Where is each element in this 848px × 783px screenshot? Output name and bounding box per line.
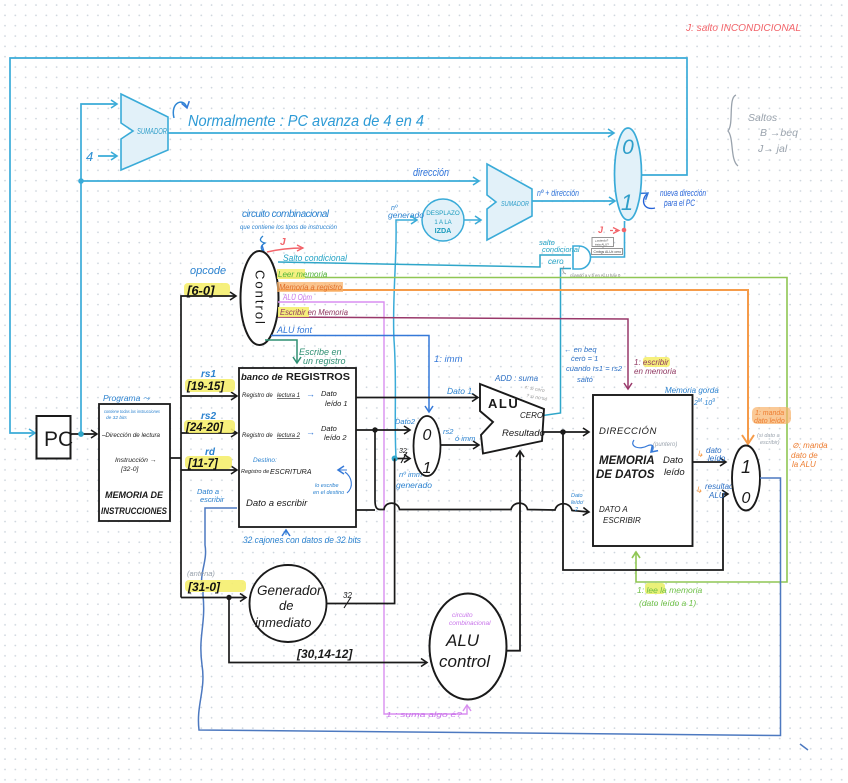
svg-text:→: → [306,389,315,399]
svg-text:rs1: rs1 [201,369,216,380]
wire branch-select: AND output right then up to mux [591,221,625,257]
svg-text:Resultado: Resultado [502,428,545,439]
memoria de datos box [593,395,693,546]
annotation memoria gorda [665,386,719,407]
svg-text:4: 4 [86,149,93,164]
label [6-0] with highlight [184,283,230,298]
svg-text:1: 1 [423,460,432,477]
svg-text:SUMADOR: SUMADOR [501,199,529,208]
wire control: memoria a registro (orange) [277,282,754,444]
svg-text:ADD : suma: ADD : suma [494,374,539,383]
svg-text:[31-0]: [31-0] [187,580,221,594]
banco de registros box [239,368,356,527]
svg-text:Dato a escribir: Dato a escribir [246,498,308,509]
svg-text:para el PC: para el PC [663,198,695,208]
wire write-back loop (blue) mux out, down, left, up into registers [198,478,780,736]
svg-text:Memoria gorda: Memoria gorda [665,386,719,395]
svg-text:leído: leído [664,467,685,478]
svg-text:1: lee la memoria: 1: lee la memoria [637,585,702,595]
svg-text:→: → [306,427,315,437]
svg-text:Dato: Dato [321,389,337,398]
wire PC value up to adder SUMADOR1 and junction [78,104,117,437]
shifter Desplazo 1 a la izda [422,199,464,241]
note box 2 (tiny) [592,249,623,255]
svg-text:0: 0 [423,427,432,444]
wire Dato leido 1 to ALU [356,386,478,398]
wire control: ALU Opm (violet) to ALU control [278,293,467,714]
svg-text:Cmbgs ALU≠ cero: Cmbgs ALU≠ cero [594,250,622,254]
svg-text:la ALU: la ALU [792,460,816,469]
wire control: leer memoria (green) [277,269,787,582]
svg-text:circuito: circuito [452,612,473,619]
wire instruction bus vertical [170,296,236,598]
svg-text:⊘: manda: ⊘: manda [792,441,828,450]
svg-text:[11-7]: [11-7] [187,458,219,470]
wire PC to instruction memory [70,431,97,437]
annotation nueva direccion para el PC [644,188,706,208]
svg-text:en memoria: en memoria [634,367,677,376]
svg-text:dirección: dirección [413,167,449,179]
svg-text:ó imm: ó imm [455,434,475,443]
svg-text:MEMORIA DE: MEMORIA DE [105,490,164,501]
svg-text:Instrucción →: Instrucción → [115,457,157,464]
svg-text:J→ jal: J→ jal [757,143,788,155]
wire adder2 output to mux 1 input [532,200,615,202]
annotation circuito combinacional (above control) [240,209,338,252]
svg-text:ALU font: ALU font [276,325,313,335]
svg-text:(puntero): (puntero) [653,442,677,448]
svg-text:(antena): (antena) [187,569,215,578]
svg-text:Destino:: Destino: [253,457,277,464]
label Dato a escribir (blue, left) [197,487,225,504]
svg-text:Memoria a registro: Memoria a registro [279,283,343,292]
svg-text:de 32 bits: de 32 bits [106,415,127,421]
svg-text:[30,14-12]: [30,14-12] [296,647,353,661]
annotation red J with arrow and dot on select wire [598,225,626,235]
annotation bracket saltos [728,95,798,166]
svg-text:leído: leído [708,454,726,463]
annotation 0 manda dato de la ALU (orange) [791,441,828,469]
annotation red J arrow near control [267,237,303,252]
svg-text:ALU Opm: ALU Opm [282,293,312,302]
ALU [480,384,545,454]
svg-text:32: 32 [343,591,352,600]
svg-text:1 : suma algo é?: 1 : suma algo é? [386,712,462,719]
svg-text:ESCRIBIR: ESCRIBIR [603,516,641,525]
svg-text:Dato: Dato [663,455,683,466]
svg-text:control: control [439,652,491,671]
wire direccion (PC to branch adder) [78,178,479,184]
svg-text:dato de: dato de [791,451,818,460]
memoria de instrucciones box [99,393,170,521]
svg-text:Escribir en Memoria: Escribir en Memoria [280,308,349,317]
svg-text:INSTRUCCIONES: INSTRUCCIONES [101,506,168,517]
svg-text:ALU: ALU [445,631,480,650]
wire salto condicional from control into AND top input [278,255,571,267]
svg-text:leído 1: leído 1 [325,399,348,408]
gray tiny note beside ALU [523,385,550,403]
svg-text:escribir: escribir [200,495,225,504]
svg-text:[24-20]: [24-20] [185,422,224,434]
svg-text:Salto condicional: Salto condicional [283,253,348,263]
svg-text:Registro de: Registro de [242,393,273,399]
svg-text:condicional: condicional [542,245,580,254]
annotation 1 lee la memoria (green) [637,583,702,608]
svg-text:IZDA: IZDA [435,226,452,235]
annotation 1 manda dato leido (orange) [752,407,791,446]
svg-text:nº + dirección: nº + dirección [537,188,579,198]
label resultado ALU at mux 0 [695,482,738,500]
label salto condicional (at gate) [539,238,580,254]
wire instruction bus into generador [181,597,246,599]
wire immediate into mux 1 input [392,448,410,463]
svg-text:leído 2: leído 2 [324,433,347,442]
svg-text:2M·109: 2M·109 [693,398,715,407]
svg-text:Registro de: Registro de [241,469,269,475]
note box 1 (tiny) [592,238,614,249]
tiny gray note under gate [563,266,621,278]
svg-text:Dato 1.: Dato 1. [447,386,474,396]
svg-text:1: 1 [741,457,751,477]
svg-text:saltó: saltó [577,375,593,384]
svg-text:inmediato: inmediato [255,615,311,630]
svg-text:DESPLAZO: DESPLAZO [426,210,460,217]
svg-text:0: 0 [742,490,751,507]
svg-text:ALU: ALU [488,396,519,411]
AND gate (branch and zero) [573,246,591,269]
svg-text:1: imm: 1: imm [434,354,463,365]
svg-text:contiene todas las instruccion: contiene todas las instrucciones [104,409,160,415]
adder SUMADOR2 (branch target) [487,164,532,240]
svg-text:J: J [280,237,286,248]
annotation 32 cajones [243,530,361,546]
svg-text:(dato leído a 1): (dato leído a 1) [639,598,696,608]
svg-text:Normalmente : PC avanza de 4 e: Normalmente : PC avanza de 4 en 4 [188,113,424,130]
svg-text:lectura 1: lectura 1 [277,393,300,399]
svg-text:Dato: Dato [321,424,337,433]
svg-text:Saltos: Saltos [748,112,778,124]
label n imm generado [396,470,432,490]
svg-text:leído: leído [571,500,583,506]
control unit ellipse [241,251,279,345]
wire PC+4 to mux 0 input [168,132,614,134]
mux write-back (1/0) [732,446,760,511]
svg-text:↳: ↳ [696,449,704,459]
wire control: escribir en memoria (dark red) [278,307,628,389]
svg-text:Dato: Dato [571,493,583,499]
wire Dato leido 2 to mux [356,417,416,433]
svg-text:dato leído: dato leído [754,418,785,425]
svg-text:que contiene los tipos de inst: que contiene los tipos de instrucción [240,225,338,231]
svg-text:REGISTROS: REGISTROS [286,371,350,383]
svg-text:Generador: Generador [257,583,322,598]
wire rd field into registers [181,447,237,470]
ALU control ellipse [430,594,507,700]
wire [30,14-12] to ALU control [226,595,427,663]
wire Resultado branch down and around to mux 0 [563,432,728,570]
svg-text:B →beq: B →beq [760,127,798,139]
svg-text:DE DATOS: DE DATOS [596,469,655,481]
svg-text:0: 0 [622,136,634,159]
svg-text:Programa ⤳: Programa ⤳ [103,393,151,403]
svg-text:DATO A: DATO A [599,505,628,514]
svg-text:opcode: opcode [190,265,226,277]
svg-text:PC: PC [44,428,73,451]
constant 4 input to adder [86,149,117,164]
svg-text:1: escribir: 1: escribir [634,358,669,367]
wire ALU control to ALU [506,451,520,651]
wire rs1 field into registers [181,369,237,396]
wire dato leido to mux 1 [693,446,726,463]
svg-text:banco de: banco de [241,372,283,383]
svg-text:Dato2: Dato2 [395,417,416,426]
svg-text:ESCRITURA: ESCRITURA [270,467,312,476]
svg-text:↳: ↳ [695,485,703,495]
svg-text:generado: generado [388,210,424,220]
svg-text:nueva dirección: nueva dirección [660,188,706,198]
wire mux output to ALU [441,427,479,445]
wire immediate output (32) of generador [327,459,395,609]
wire rs2 field into registers [181,411,237,434]
generador de inmediato circle [250,565,327,642]
svg-text:un registro: un registro [303,356,346,366]
svg-text:DIRECCIÓN: DIRECCIÓN [599,426,657,437]
mux PC source (0/1) top right [615,128,642,220]
register PC [37,416,74,459]
svg-text:rs2: rs2 [443,427,454,436]
svg-text:cuando rs1 = rs2: cuando rs1 = rs2 [566,364,623,373]
svg-text:lectura 2: lectura 2 [277,433,301,439]
mux ALUSrc (0/1) [414,416,441,477]
svg-text:(si dato a: (si dato a [757,433,780,439]
svg-text:SUMADOR: SUMADOR [137,127,167,136]
wire control: escribe en un registro (dark green) [265,340,346,366]
annotation 1 escribir en memoria [634,357,677,376]
wire Resultado to data memory [542,429,589,435]
svg-text:[19-15]: [19-15] [186,381,225,393]
svg-text:cero: cero [548,257,564,266]
svg-text:32 cajones con datos de 32 bit: 32 cajones con datos de 32 bits [243,535,361,546]
svg-text:ésta ALU?: ésta ALU? [595,243,609,247]
svg-text:2: 2 [574,507,578,513]
wire dato 2 down to DATO A ESCRIBIR (with hops) [356,430,589,513]
wire immediate up into shifter [394,220,417,458]
wire cero from ALU up into AND bottom input [543,269,571,416]
svg-text:← en beq: ← en beq [564,345,597,354]
wire shifter to adder2 [464,219,481,221]
annotation curl arrow [173,102,187,118]
svg-text:de: de [279,598,293,613]
svg-text:escribir): escribir) [760,440,780,446]
svg-text:CERO: CERO [520,411,543,420]
wire control: ALU font (blue) to mux select [271,325,429,412]
svg-text:Control: Control [253,270,268,326]
annotation en beq cero [564,345,623,384]
svg-text:circuito combinacional: circuito combinacional [242,209,330,220]
svg-text:–Dirección de lectura: –Dirección de lectura [101,432,160,439]
svg-text:1: 1 [621,190,633,215]
svg-text:Leer memoria: Leer memoria [278,270,328,279]
svg-text:MEMORIA: MEMORIA [599,455,655,467]
wire PC-next loop (mux output right, up, across top, down left side into PC) [10,58,687,433]
adder SUMADOR1 (PC+4) [121,94,168,170]
svg-text:32: 32 [399,448,407,455]
svg-text:ALU: ALU [708,491,725,500]
svg-text:Registro de: Registro de [242,433,273,439]
svg-text:combinacional: combinacional [449,620,491,627]
svg-text:1: manda: 1: manda [755,410,784,417]
svg-text:lo escribe: lo escribe [315,483,339,489]
label n generado [388,205,424,220]
label [31-0] with highlight and antena [185,569,246,594]
svg-text:[32-0]: [32-0] [120,466,139,473]
svg-text:en el destino: en el destino [313,490,344,496]
svg-text:cero = 1: cero = 1 [571,354,598,363]
small blue tick bottom right [800,744,808,750]
svg-text:generado: generado [396,480,432,490]
svg-text:J: salto INCONDICIONAL: J: salto INCONDICIONAL [685,22,801,34]
